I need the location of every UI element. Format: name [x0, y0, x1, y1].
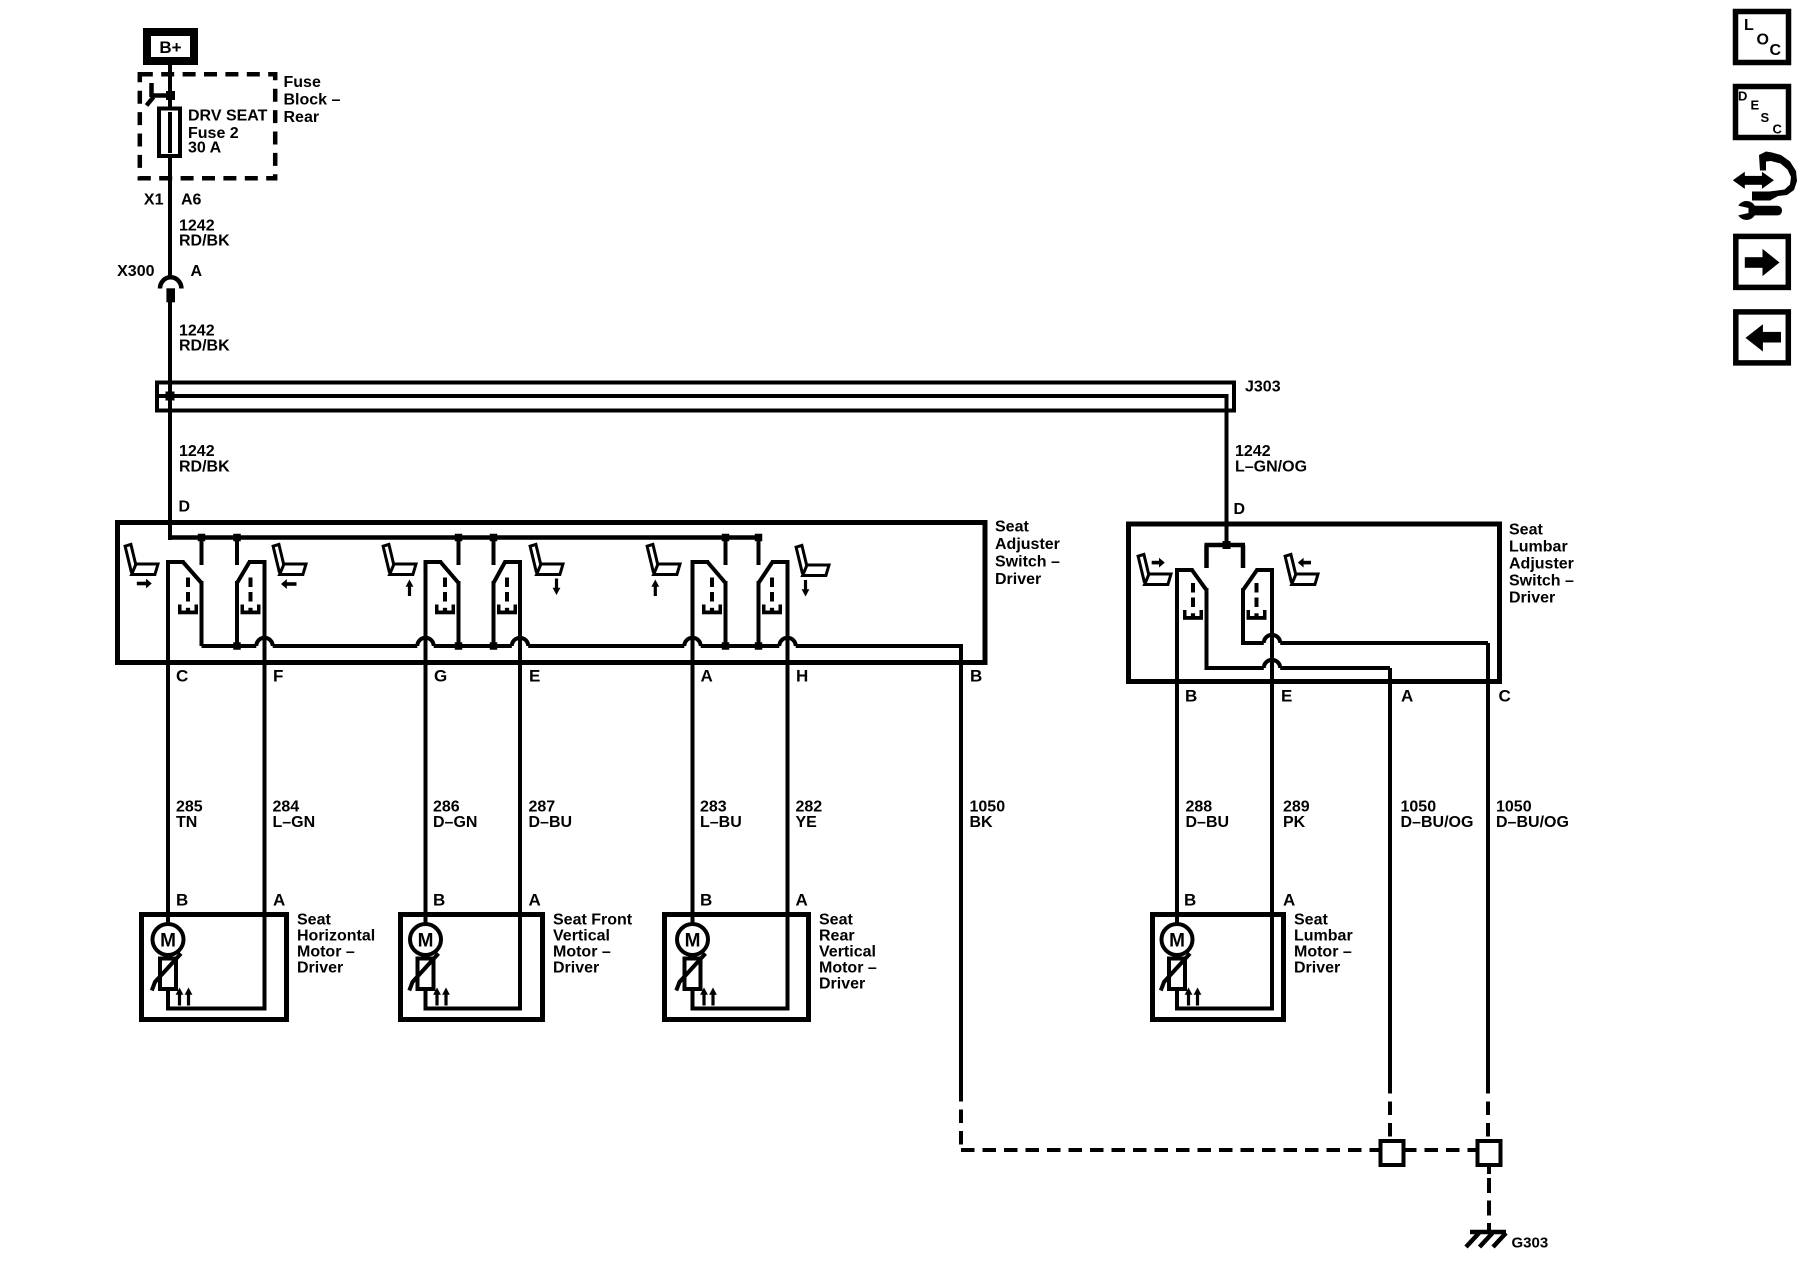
motor symbol M (seat rear vertical motor - driver) — [677, 924, 708, 955]
svg-text:A: A — [529, 891, 541, 910]
rail stub and junction (F contact) — [233, 534, 241, 565]
switch contact lumbar B — [1175, 570, 1207, 668]
junction dot common line (F) — [233, 642, 241, 650]
svg-text:X1: X1 — [144, 192, 164, 209]
sidebar icon DESC — [1736, 87, 1789, 138]
internal wire (seat front vertical motor - driver) — [424, 989, 428, 1011]
svg-text:M: M — [685, 931, 701, 952]
wire 282 YE (H to motor) — [786, 564, 790, 917]
svg-text:Adjuster: Adjuster — [1509, 556, 1574, 573]
svg-text:A: A — [796, 891, 808, 910]
wire X300 to splice pack J303 — [168, 302, 172, 396]
svg-text:Motor –: Motor – — [1294, 944, 1352, 961]
rail stub and junction (H contact) — [755, 534, 763, 565]
svg-text:Switch –: Switch – — [1509, 573, 1574, 590]
wire 283 L-BU (A to motor) — [691, 564, 695, 924]
inline connector X300 pin A — [117, 263, 202, 302]
svg-text:B: B — [700, 891, 712, 910]
switch contact A — [691, 562, 726, 646]
junction dot common line (G) — [455, 642, 463, 650]
svg-text:Seat: Seat — [1294, 912, 1328, 929]
PTC thermal limiter (seat front vertical motor - driver) — [424, 953, 428, 960]
svg-text:F: F — [273, 667, 283, 686]
svg-text:A: A — [1283, 891, 1295, 910]
seat icon (lumbar forward) — [1138, 554, 1171, 584]
seat icon (rear up) — [647, 544, 680, 574]
wire J303 to switch pin D — [168, 396, 172, 540]
svg-text:E: E — [529, 667, 540, 686]
svg-text:BK: BK — [970, 814, 994, 831]
switch contact E — [494, 562, 523, 646]
internal wire (seat horizontal motor - driver) — [166, 989, 170, 1011]
svg-text:D–BU/OG: D–BU/OG — [1401, 814, 1474, 831]
rail stub and junction (G contact) — [455, 534, 463, 565]
svg-text:Motor –: Motor – — [553, 944, 611, 961]
wire 1050 D-BU/OG (lumbar A to splice) — [1388, 668, 1392, 1080]
switch contact G — [424, 562, 459, 646]
svg-text:Driver: Driver — [297, 960, 343, 977]
svg-text:C: C — [1499, 687, 1511, 706]
svg-text:L–BU: L–BU — [700, 814, 742, 831]
svg-text:E: E — [1281, 687, 1292, 706]
seat lumbar adjuster switch - driver (box) — [1129, 524, 1500, 682]
svg-text:Driver: Driver — [1294, 960, 1340, 977]
arrow right (lumbar) — [1152, 558, 1165, 568]
svg-text:B: B — [1184, 891, 1196, 910]
svg-text:Seat: Seat — [1509, 522, 1543, 539]
svg-text:287: 287 — [529, 799, 556, 816]
svg-text:O: O — [1757, 32, 1769, 49]
wire label 1242 L-GN/OG — [1235, 443, 1307, 475]
svg-text:1050: 1050 — [1401, 799, 1437, 816]
pin labels C F G E A H B — [176, 667, 982, 686]
svg-text:Switch –: Switch – — [995, 554, 1060, 571]
motor seat rear vertical motor - driver — [665, 912, 877, 1020]
lumbar internal line to pin A — [1205, 660, 1391, 684]
svg-text:D–GN: D–GN — [433, 814, 477, 831]
circuit labels row — [176, 799, 1569, 832]
junction dot common line (H) — [755, 642, 763, 650]
connector pins X1 / A6 — [144, 192, 202, 209]
sidebar icon back arrow — [1736, 312, 1789, 363]
svg-text:284: 284 — [273, 799, 300, 816]
wire B+ to fuse block — [168, 65, 172, 107]
wire fuse to X300 — [168, 156, 172, 278]
motor pin labels B / A — [176, 891, 1295, 910]
svg-text:B: B — [433, 891, 445, 910]
svg-text:D: D — [1234, 501, 1246, 518]
motor seat horizontal motor - driver — [142, 912, 376, 1020]
svg-text:D: D — [179, 499, 191, 516]
seat icon (lumbar rearward) — [1285, 554, 1318, 584]
svg-text:H: H — [796, 667, 808, 686]
up arrow 1 seat horizontal motor - driver — [176, 988, 184, 1006]
svg-text:Rear: Rear — [819, 928, 855, 945]
junction dot common line (A) — [722, 642, 730, 650]
sidebar icon service advisor (arrows and wrench) — [1733, 152, 1797, 221]
wire 285 TN (C to motor) — [166, 564, 170, 924]
svg-text:286: 286 — [433, 799, 460, 816]
arrow left (lumbar) — [1298, 558, 1311, 568]
seat icon (rearward) — [273, 544, 306, 574]
svg-text:D–BU: D–BU — [1186, 814, 1230, 831]
up arrow 1 seat lumbar motor - driver — [1185, 988, 1193, 1006]
svg-text:M: M — [1169, 931, 1185, 952]
svg-text:DRV SEAT: DRV SEAT — [188, 107, 268, 124]
switch contact F — [237, 562, 267, 646]
svg-text:C: C — [176, 667, 188, 686]
svg-text:Driver: Driver — [1509, 590, 1555, 607]
rail stub and junction (C contact) — [198, 534, 206, 565]
svg-text:G: G — [434, 667, 447, 686]
svg-text:283: 283 — [700, 799, 727, 816]
up arrow 1 seat front vertical motor - driver — [433, 988, 441, 1006]
svg-text:288: 288 — [1186, 799, 1213, 816]
svg-text:E: E — [1751, 97, 1760, 112]
svg-text:M: M — [418, 931, 434, 952]
up arrow 2 seat front vertical motor - driver — [442, 988, 450, 1006]
svg-text:YE: YE — [796, 814, 818, 831]
motor seat front vertical motor - driver — [401, 912, 633, 1020]
label Fuse Block - Rear — [284, 74, 341, 126]
svg-text:Rear: Rear — [284, 109, 320, 126]
wire 287 D-BU (E to motor) — [518, 564, 522, 917]
wire 289 PK (lumbar E to motor) — [1270, 572, 1274, 917]
svg-text:Lumbar: Lumbar — [1509, 539, 1568, 556]
arrow up (rear vertical up) — [651, 580, 659, 597]
svg-text:TN: TN — [176, 814, 197, 831]
svg-text:L–GN/OG: L–GN/OG — [1235, 459, 1307, 476]
ground G303 — [1466, 1232, 1548, 1252]
svg-text:L: L — [1744, 17, 1754, 34]
svg-text:RD/BK: RD/BK — [179, 337, 230, 354]
svg-text:282: 282 — [796, 799, 823, 816]
wire 284 L-GN (F to motor) — [263, 564, 267, 917]
svg-text:Driver: Driver — [995, 571, 1041, 588]
svg-text:Driver: Driver — [553, 960, 599, 977]
svg-text:1050: 1050 — [1496, 799, 1532, 816]
svg-text:D–BU/OG: D–BU/OG — [1496, 814, 1569, 831]
splice S1 — [1381, 1141, 1404, 1165]
svg-text:Horizontal: Horizontal — [297, 928, 375, 945]
switch contact lumbar E — [1243, 570, 1274, 643]
fuse block rear (dashed outline) — [140, 74, 275, 178]
svg-text:Block –: Block – — [284, 92, 341, 109]
svg-text:1050: 1050 — [970, 799, 1006, 816]
rail stub and junction (A contact) — [722, 534, 730, 565]
svg-text:285: 285 — [176, 799, 203, 816]
svg-text:Seat: Seat — [297, 912, 331, 929]
svg-text:Seat Front: Seat Front — [553, 912, 633, 929]
seat icon (front up) — [383, 544, 416, 574]
PTC thermal limiter (seat rear vertical motor - driver) — [691, 953, 695, 960]
svg-text:Seat: Seat — [819, 912, 853, 929]
svg-text:C: C — [1770, 42, 1782, 59]
svg-text:Motor –: Motor – — [819, 960, 877, 977]
PTC thermal limiter (seat horizontal motor - driver) — [166, 953, 170, 960]
label Seat Lumbar Adjuster Switch - Driver — [1509, 522, 1574, 607]
splice S2 — [1478, 1141, 1501, 1165]
arrow down (rear vertical down) — [802, 580, 810, 597]
seat adjuster switch - driver (box) — [118, 523, 986, 663]
arrow left (seat rearward) — [281, 579, 297, 589]
lumbar feed bar — [1205, 541, 1246, 568]
sidebar icon LOC — [1736, 12, 1789, 63]
svg-text:PK: PK — [1283, 814, 1306, 831]
svg-text:A: A — [273, 891, 285, 910]
arrow down (front vertical down) — [553, 579, 561, 596]
motor symbol M (seat front vertical motor - driver) — [410, 924, 441, 955]
seat icon (forward) — [125, 544, 158, 574]
internal wire (seat lumbar motor - driver) — [1175, 989, 1179, 1011]
svg-text:Driver: Driver — [819, 976, 865, 993]
sidebar icon forward arrow — [1736, 236, 1789, 287]
switch common line to pin B — [202, 638, 964, 665]
svg-text:A: A — [1401, 687, 1413, 706]
up arrow 2 seat rear vertical motor - driver — [709, 988, 717, 1006]
wire label 1242 RD/BK (middle) — [179, 323, 230, 355]
svg-text:289: 289 — [1283, 799, 1310, 816]
feed rail inside switch — [168, 535, 761, 540]
switch contact C — [166, 562, 202, 646]
wire J303 to lumbar switch pin D — [1225, 394, 1229, 545]
svg-text:G303: G303 — [1512, 1235, 1549, 1252]
switch contact H — [759, 562, 790, 646]
wire label 1242 RD/BK (upper) — [179, 217, 230, 249]
svg-text:Adjuster: Adjuster — [995, 536, 1060, 553]
svg-text:B: B — [1185, 687, 1197, 706]
fuse DRV SEAT Fuse 2 30 A — [159, 95, 268, 160]
wire 288 D-BU (lumbar B to motor) — [1175, 572, 1179, 924]
wire 1050 D-BU/OG (lumbar C to splice) — [1486, 645, 1490, 1080]
svg-text:X300: X300 — [117, 263, 154, 280]
seat icon (front down) — [530, 544, 563, 574]
label Seat Adjuster Switch - Driver — [995, 519, 1060, 589]
arrow right (seat forward) — [137, 579, 152, 589]
wire label 1242 RD/BK (lower) — [179, 443, 230, 475]
splice pack J303 — [157, 379, 1281, 411]
rail stub and junction (E contact) — [490, 534, 498, 565]
svg-text:RD/BK: RD/BK — [179, 233, 230, 250]
motor symbol M (seat horizontal motor - driver) — [153, 924, 184, 955]
up arrow 1 seat rear vertical motor - driver — [700, 988, 708, 1006]
junction dot common line (E) — [490, 642, 498, 650]
svg-text:30 A: 30 A — [188, 140, 222, 157]
dashed wire between splices — [1403, 1148, 1478, 1152]
svg-text:Fuse: Fuse — [284, 74, 321, 91]
svg-text:Lumbar: Lumbar — [1294, 928, 1353, 945]
lumbar internal line to pin C — [1241, 635, 1488, 684]
svg-text:M: M — [160, 931, 176, 952]
dashed wire splice to ground — [1487, 1164, 1491, 1230]
fuse block bus tap — [147, 83, 176, 106]
svg-text:L–GN: L–GN — [273, 814, 316, 831]
svg-text:Vertical: Vertical — [819, 944, 876, 961]
battery feed B+ — [147, 32, 194, 61]
svg-text:B+: B+ — [159, 38, 181, 57]
svg-text:D–BU: D–BU — [529, 814, 573, 831]
up arrow 2 seat horizontal motor - driver — [185, 988, 193, 1006]
up arrow 2 seat lumbar motor - driver — [1194, 988, 1202, 1006]
svg-text:Motor –: Motor – — [297, 944, 355, 961]
motor symbol M (seat lumbar motor - driver) — [1162, 924, 1193, 955]
dashed ground harness wire — [961, 1148, 1382, 1152]
svg-text:B: B — [970, 667, 982, 686]
svg-text:A6: A6 — [181, 192, 202, 209]
svg-text:Seat: Seat — [995, 519, 1029, 536]
svg-text:RD/BK: RD/BK — [179, 459, 230, 476]
arrow up (front vertical up) — [406, 580, 414, 597]
svg-text:Vertical: Vertical — [553, 928, 610, 945]
wire 1050 BK (B to splice) — [959, 663, 963, 1088]
svg-text:S: S — [1761, 110, 1770, 125]
svg-text:A: A — [191, 263, 203, 280]
internal wire (seat rear vertical motor - driver) — [691, 989, 695, 1011]
lumbar pin labels B E A C — [1185, 687, 1511, 706]
wire 286 D-GN (G to motor) — [424, 564, 428, 924]
seat icon (rear down) — [796, 545, 829, 575]
svg-text:J303: J303 — [1245, 379, 1281, 396]
svg-text:A: A — [701, 667, 713, 686]
svg-text:C: C — [1773, 121, 1783, 136]
svg-text:D: D — [1738, 88, 1747, 103]
svg-text:B: B — [176, 891, 188, 910]
motor seat lumbar motor - driver — [1153, 912, 1353, 1020]
PTC thermal limiter (seat lumbar motor - driver) — [1175, 953, 1179, 960]
